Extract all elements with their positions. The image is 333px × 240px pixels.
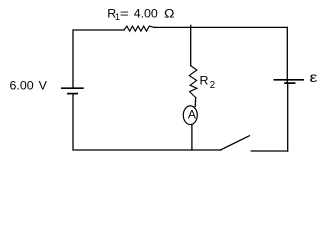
ammeter A1 circle [183,106,197,125]
svg-text:6.00V: 6.00V [10,78,48,92]
wire left-bottom: down left side and across bottom [73,94,221,150]
svg-text:R2: R2 [200,73,216,91]
battery B2 tick between plates [286,80,288,83]
node tick above junction [190,25,192,27]
svg-text:A: A [188,107,196,121]
wire below ammeter [191,124,193,150]
wire bottom-right segment [251,150,288,152]
resistor R1 [124,26,154,31]
battery B1 short plate (-) [68,93,77,95]
battery B2 short plate (-) [285,82,295,84]
resistor R2 [189,66,197,98]
battery B2 long plate (+) [274,79,303,81]
switch S1 lever (open) [221,136,250,150]
wire R2 to ammeter [194,98,197,107]
svg-text:=: = [120,6,129,20]
svg-text:Ω: Ω [164,6,175,20]
wire right side upper [286,27,288,79]
svg-text:ε: ε [310,71,318,86]
wire top-right horizontal [154,26,287,28]
battery B1 long plate (+) [62,87,83,89]
wire right side lower [287,83,289,151]
wire middle branch upper [190,27,192,65]
svg-text:R14.00: R14.00 [107,7,158,23]
wire left-top: up left side and across to R1 [73,30,124,88]
